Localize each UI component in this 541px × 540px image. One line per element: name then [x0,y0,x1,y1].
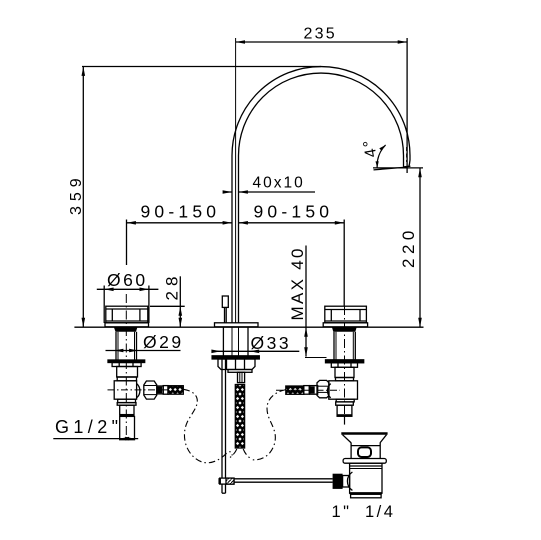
right body cylinder [335,367,354,377]
pop-up rod knob [222,296,228,307]
center hose nut [238,372,245,382]
left nipple [157,386,163,394]
right locknut [331,363,357,368]
right shank [333,332,335,360]
hose curve from center left branch [230,449,237,458]
drain bottom [350,492,382,494]
dimension D60 [97,286,159,297]
drain top rim [341,432,387,434]
drain rod connector [343,476,350,488]
dimension MAX 40 [304,246,326,358]
left under-deck gasket [114,328,137,332]
svg-text:1": 1" [332,503,352,521]
4 deg tilted line [374,167,407,170]
left valve body [114,381,136,399]
svg-text:220: 220 [399,226,418,268]
hose curve from right valve [253,390,286,460]
left washer [108,360,145,363]
hose curve from left valve [183,389,232,463]
spout tip axis dotted [406,147,408,162]
left valve group [104,294,183,440]
center washer [212,356,259,359]
left outlet hex nut [144,381,157,399]
center step [228,370,252,373]
drain knob [358,447,371,457]
dimension D29 [106,349,181,353]
left flange [105,323,149,327]
left hose braid [168,386,183,395]
dimension 90-150 left [127,220,233,266]
svg-text:Ø33: Ø33 [251,333,292,353]
drain ball socket arc [347,472,352,490]
left valve centerline [125,294,127,440]
right flange [323,323,367,327]
drain body [350,463,382,493]
pop-up rod below deck [221,359,223,478]
dimension 235 line [236,38,408,173]
drain rod black block [333,474,343,489]
center flange [215,323,259,327]
center braided hose [235,385,244,449]
center shank [222,327,224,356]
dimension 28 [150,276,185,327]
left locknut [112,363,141,367]
svg-text:4°: 4° [360,137,380,159]
right valve axis [276,389,340,391]
spout arc inner [239,73,404,323]
horizontal drain rod [234,479,333,482]
left body cylinder [117,367,138,378]
deck line [74,326,423,328]
drain assembly [333,434,388,498]
svg-text:40x10: 40x10 [253,175,305,192]
dimension 40x10 [223,190,315,194]
left tailpiece [120,405,134,415]
rod stub below block [221,484,223,493]
right hose ferrule [304,386,309,395]
right valve group [276,306,368,425]
left body steps [118,399,136,402]
svg-text:Ø29: Ø29 [143,332,184,352]
pop-up rod cross block [220,478,234,493]
svg-text:MAX 40: MAX 40 [288,246,307,320]
svg-text:1/4: 1/4 [365,503,395,521]
right valve body [329,381,358,399]
center locknut [218,359,255,370]
dimension 359 [82,67,322,328]
hose curve from center right branch [243,449,252,459]
right under-deck gasket [332,328,357,332]
right male thread [337,405,352,416]
left handle [106,306,148,323]
right washer [326,360,364,363]
center spout base group [212,296,259,478]
right nipple [310,386,318,395]
drain funnel [343,435,352,443]
spout arc outer [232,67,410,323]
right outlet hex nut [317,380,329,397]
left shank [115,332,117,360]
svg-text:359: 359 [68,173,85,215]
right handle [325,306,367,323]
svg-text:90-150: 90-150 [254,202,334,222]
spout centerline [235,38,237,323]
svg-text:235: 235 [304,26,337,43]
svg-text:G1/2": G1/2" [55,417,122,437]
right body steps [336,399,354,402]
drain flange [343,459,386,464]
svg-text:Ø60: Ø60 [107,270,148,290]
left hose ferrule [163,386,168,395]
dimension 90-150 right [239,220,345,307]
dimension 220 [373,168,423,327]
angle 4 deg arc [377,145,386,168]
left valve axis [108,389,171,391]
svg-text:28: 28 [163,272,182,301]
right hose braid [286,386,304,394]
svg-text:90-150: 90-150 [141,202,221,222]
dimension G1/2 [53,437,138,441]
right valve centerline [344,306,346,416]
left male thread G1/2 [120,416,135,439]
dimension D33 [211,350,299,354]
spout tip face [403,165,410,168]
